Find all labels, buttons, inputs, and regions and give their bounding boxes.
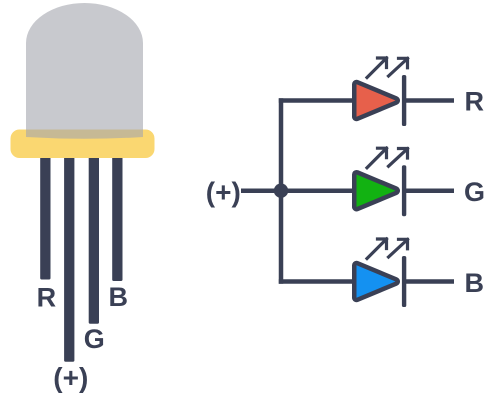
svg-text:(+): (+): [53, 362, 88, 393]
svg-text:(+): (+): [206, 176, 241, 207]
svg-text:G: G: [84, 324, 105, 354]
svg-text:R: R: [37, 283, 57, 313]
svg-text:R: R: [465, 87, 485, 117]
svg-text:B: B: [465, 268, 485, 298]
svg-text:B: B: [109, 282, 129, 312]
svg-text:G: G: [464, 177, 485, 207]
